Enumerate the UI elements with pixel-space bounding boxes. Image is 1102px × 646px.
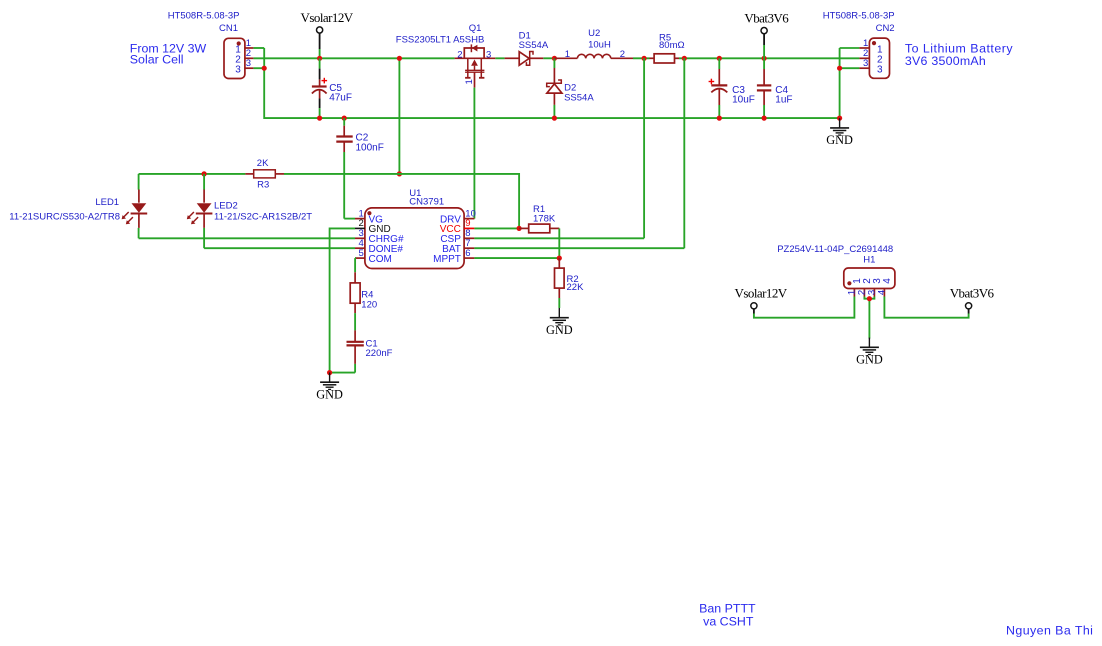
svg-text:47uF: 47uF: [329, 93, 352, 104]
node C3 top junction: [717, 56, 722, 61]
node CN1 pin3 junction: [262, 66, 267, 71]
ground H1: [856, 338, 883, 367]
svg-text:H1: H1: [863, 254, 875, 265]
svg-text:Solar Cell: Solar Cell: [130, 53, 184, 67]
svg-text:SS54A: SS54A: [519, 40, 549, 51]
node x399 R3 net junction: [397, 171, 402, 176]
svg-text:3: 3: [235, 65, 241, 76]
svg-text:6: 6: [465, 248, 470, 259]
resistor R5 80mOhm: [650, 32, 685, 63]
svg-text:3V6 3500mAh: 3V6 3500mAh: [905, 54, 986, 68]
svg-text:220nF: 220nF: [366, 348, 393, 359]
wire BAT vertical: [683, 58, 685, 248]
wire CN1 pin3: [253, 67, 264, 69]
svg-text:10uH: 10uH: [588, 39, 611, 50]
svg-text:4: 4: [882, 278, 893, 284]
svg-text:MPPT: MPPT: [433, 254, 461, 265]
label Nguyen Ba Thi: [1006, 624, 1093, 638]
svg-text:LED2: LED2: [214, 201, 238, 212]
node R5 left junction: [642, 56, 647, 61]
svg-text:80mΩ: 80mΩ: [659, 40, 685, 51]
capacitor C1 220nF: [330, 330, 393, 372]
svg-text:1: 1: [565, 49, 570, 60]
svg-text:2: 2: [620, 49, 625, 60]
node C5 bottom junction: [317, 116, 322, 121]
wire H1 pin1 to Vsolar: [754, 297, 855, 318]
svg-text:SS54A: SS54A: [564, 92, 594, 103]
svg-text:Vsolar12V: Vsolar12V: [735, 285, 788, 300]
wire CSP pin8: [474, 237, 644, 239]
svg-text:Vsolar12V: Vsolar12V: [301, 10, 354, 25]
LED LED2: [187, 174, 312, 248]
IC U1 CN3791: [355, 188, 476, 268]
wire rail A top Vsolar net: [253, 57, 859, 59]
svg-text:R3: R3: [257, 179, 269, 190]
inductor U2 10uH: [554, 28, 633, 60]
capacitor C4 1uF: [757, 58, 793, 118]
svg-text:2K: 2K: [257, 158, 269, 169]
svg-text:1: 1: [464, 79, 475, 84]
wire GND pin2 net: [330, 228, 355, 372]
svg-text:COM: COM: [369, 254, 392, 265]
capacitor C5 47uF: [312, 58, 352, 118]
connector CN2 HT508R-5.08-3P: [823, 10, 895, 78]
svg-text:CN2: CN2: [876, 23, 895, 34]
svg-text:Vbat3V6: Vbat3V6: [744, 10, 789, 25]
wire R1 to MPPT vertical: [558, 228, 560, 258]
node D2 bottom junction: [552, 116, 557, 121]
svg-text:11-21SURC/S530-A2/TR8: 11-21SURC/S530-A2/TR8: [9, 211, 120, 222]
wire CN1 pin1: [253, 47, 264, 49]
wire CN2 pin1: [840, 47, 860, 49]
svg-text:2: 2: [457, 50, 462, 61]
svg-text:Vbat3V6: Vbat3V6: [950, 285, 995, 300]
svg-text:FSS2305LT1 A5SHB: FSS2305LT1 A5SHB: [396, 35, 485, 46]
node C4 bottom junction: [762, 116, 767, 121]
node D1 D2 U2 junction: [552, 56, 557, 61]
svg-text:PZ254V-11-04P_C2691448: PZ254V-11-04P_C2691448: [777, 244, 893, 255]
svg-text:5: 5: [359, 248, 364, 259]
power port Vsolar12V H1: [735, 285, 788, 313]
wire R3 net horizontal: [139, 174, 519, 229]
wire Q1 gate to DRV: [473, 88, 475, 219]
node H1 gnd junction: [867, 296, 872, 301]
node C4 top junction: [762, 56, 767, 61]
capacitor C2 100nF: [336, 118, 384, 219]
svg-text:Ban PTTT: Ban PTTT: [699, 601, 756, 615]
node CN2 gnd junction: [837, 116, 842, 121]
svg-text:CN1: CN1: [219, 23, 238, 34]
LED LED1: [9, 174, 147, 238]
resistor R2 22K: [555, 258, 585, 308]
node C3 bottom junction: [717, 116, 722, 121]
node MPPT junction: [557, 256, 562, 261]
wire MPPT pin6: [474, 257, 559, 259]
node x399 railA junction: [397, 56, 402, 61]
svg-text:22K: 22K: [567, 282, 585, 293]
svg-text:CN3791: CN3791: [409, 196, 444, 207]
svg-text:100nF: 100nF: [356, 142, 384, 153]
connector CN1 HT508R-5.08-3P: [168, 10, 254, 78]
svg-text:1uF: 1uF: [775, 95, 792, 106]
wire H1 pin4 to Vbat: [884, 297, 968, 318]
svg-text:11-21/S2C-AR1S2B/2T: 11-21/S2C-AR1S2B/2T: [214, 211, 312, 222]
power port Vsolar12V top: [301, 10, 354, 58]
node LED2 top junction: [202, 171, 207, 176]
resistor R3 2K: [245, 158, 284, 190]
wire rail B ground bus: [264, 48, 839, 118]
ground R2: [546, 308, 573, 337]
svg-text:3: 3: [246, 58, 251, 69]
node R5 right junction: [682, 56, 687, 61]
svg-text:120: 120: [361, 299, 377, 310]
transistor Q1 FSS2305LT1: [396, 23, 496, 88]
resistor R4 120: [350, 272, 377, 313]
node C2 top junction: [342, 116, 347, 121]
node CN2 pin3 junction: [837, 66, 842, 71]
diode D1 SS54A: [505, 30, 549, 65]
wire R4 to C1: [354, 313, 356, 330]
svg-text:3: 3: [877, 65, 883, 76]
svg-text:4: 4: [876, 290, 887, 295]
svg-text:U2: U2: [588, 28, 600, 39]
ground CN2: [826, 118, 853, 147]
wire DONE# net: [204, 247, 355, 249]
wire CHRG# net: [139, 237, 355, 239]
svg-text:Nguyen Ba Thi: Nguyen Ba Thi: [1006, 624, 1093, 638]
ground left: [316, 373, 343, 402]
power port Vbat3V6 top: [744, 10, 789, 58]
wire H1 pins 2 3 to gnd: [864, 297, 874, 339]
wire BAT pin7: [474, 247, 684, 249]
resistor R1 178K: [519, 204, 559, 233]
wire CN2 pin3: [840, 67, 860, 69]
svg-text:3: 3: [486, 50, 491, 61]
wire COM to R4: [354, 258, 356, 272]
connector H1 PZ254V-11-04P: [777, 244, 895, 297]
label Ban PTTT va CSHT: [699, 601, 756, 628]
wire CSP vertical: [643, 58, 645, 238]
svg-text:10uF: 10uF: [732, 95, 755, 106]
label To Lithium Battery: [905, 42, 1013, 69]
svg-text:LED1: LED1: [95, 197, 119, 208]
svg-text:va CSHT: va CSHT: [703, 615, 754, 629]
diode D2 SS54A: [547, 58, 595, 118]
svg-text:178K: 178K: [533, 213, 556, 224]
power port Vbat3V6 H1: [950, 285, 995, 313]
svg-text:HT508R-5.08-3P: HT508R-5.08-3P: [823, 10, 895, 21]
svg-text:3: 3: [863, 58, 868, 69]
wire VCC pin9: [474, 227, 519, 229]
svg-text:HT508R-5.08-3P: HT508R-5.08-3P: [168, 10, 240, 21]
capacitor C3 10uF: [709, 58, 755, 118]
node Vsolar junction: [317, 56, 322, 61]
node R1 left junction: [517, 226, 522, 231]
svg-text:Q1: Q1: [469, 23, 482, 34]
wire Vsolar to VCC vertical: [398, 58, 400, 174]
node left gnd junction: [327, 370, 332, 375]
label From 12V 3W Solar Cell: [130, 41, 207, 66]
